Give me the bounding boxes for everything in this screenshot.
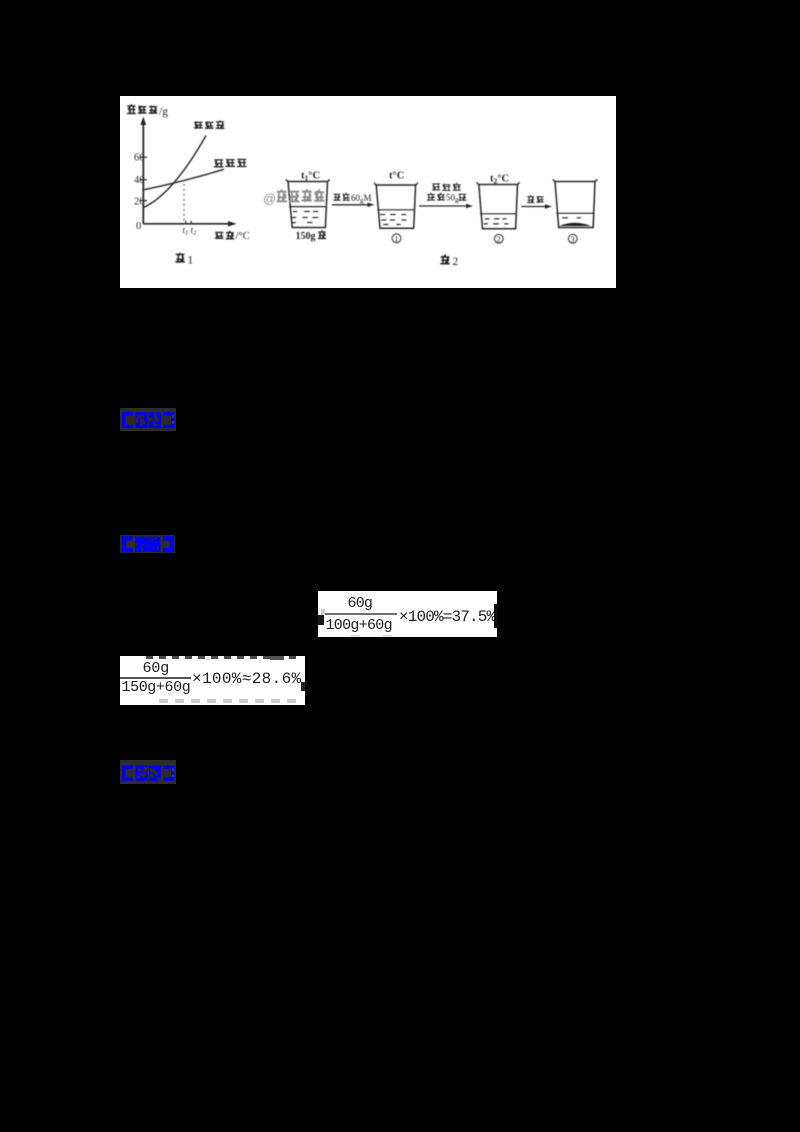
NaCl curve xyxy=(144,169,225,190)
y ticks xyxy=(141,156,148,158)
label ② xyxy=(494,234,503,243)
svg-text:150g: 150g xyxy=(296,231,316,242)
beaker 3 xyxy=(479,185,518,229)
x ticks t1 t2 xyxy=(185,221,187,224)
svg-text:20: 20 xyxy=(134,196,145,207)
numerator 60g xyxy=(348,595,373,612)
formula 2 xyxy=(120,656,306,705)
svg-text:60: 60 xyxy=(134,153,145,164)
arrow 1 xyxy=(332,204,370,206)
y axis label 溶解度/g xyxy=(127,104,136,114)
svg-text:3: 3 xyxy=(571,235,575,244)
right edge caret bar xyxy=(494,604,497,628)
label 【点评】 xyxy=(120,760,176,784)
beaker 1 xyxy=(288,182,328,228)
right edge dark mark xyxy=(301,682,305,691)
svg-text:0: 0 xyxy=(136,221,141,232)
svg-text:t°C: t°C xyxy=(389,171,404,182)
NaCl label 氯化钠 xyxy=(214,159,224,167)
scanned figure image xyxy=(120,96,616,288)
denominator 150g+60g xyxy=(122,679,191,696)
x-axis xyxy=(143,223,230,225)
arrow 3 xyxy=(522,206,548,208)
label ① xyxy=(392,234,401,243)
x100%=37.5% xyxy=(399,608,495,626)
arrow3 label 降温 xyxy=(527,195,535,203)
x100%~28.6% xyxy=(192,670,301,688)
svg-text:40: 40 xyxy=(134,175,145,186)
beaker 2 xyxy=(376,185,415,228)
top remnant dashes xyxy=(146,656,298,659)
left dark remnant xyxy=(318,615,324,625)
fraction bar xyxy=(322,613,397,615)
fig1 label 图1 xyxy=(175,253,185,263)
fig2 label 图2 xyxy=(440,254,450,264)
y-axis xyxy=(142,122,144,224)
svg-text:2: 2 xyxy=(453,256,459,268)
svg-text:t2°C: t2°C xyxy=(490,173,509,185)
bottom smudges xyxy=(351,635,360,637)
arrow2 label 再恒温 / 蒸发50g水 xyxy=(432,184,440,191)
svg-text:1: 1 xyxy=(188,254,194,266)
KNO3 label 硝酸钾 xyxy=(194,121,203,129)
label 【分析】 xyxy=(120,408,176,431)
numerator 60g xyxy=(143,660,170,677)
svg-text:1: 1 xyxy=(394,235,398,244)
formula 1 xyxy=(318,591,497,637)
svg-text:t1°C: t1°C xyxy=(301,171,320,183)
arrow 2 xyxy=(419,205,468,207)
label 【解答】 xyxy=(120,535,175,553)
svg-text:@: @ xyxy=(263,191,276,206)
arrow1 label 加入60gM xyxy=(333,194,340,201)
KNO3 curve xyxy=(144,136,207,208)
fraction bar xyxy=(120,677,191,679)
svg-text:/g: /g xyxy=(159,106,168,118)
x axis label 温度/°C xyxy=(215,232,224,239)
svg-text:/°C: /°C xyxy=(236,231,250,242)
beaker 4 xyxy=(555,182,595,228)
label ③ xyxy=(568,234,577,243)
dotted construction line xyxy=(183,184,185,222)
bottom smudges xyxy=(159,699,298,704)
denominator 100g+60g xyxy=(326,617,392,634)
svg-text:2: 2 xyxy=(497,235,501,244)
